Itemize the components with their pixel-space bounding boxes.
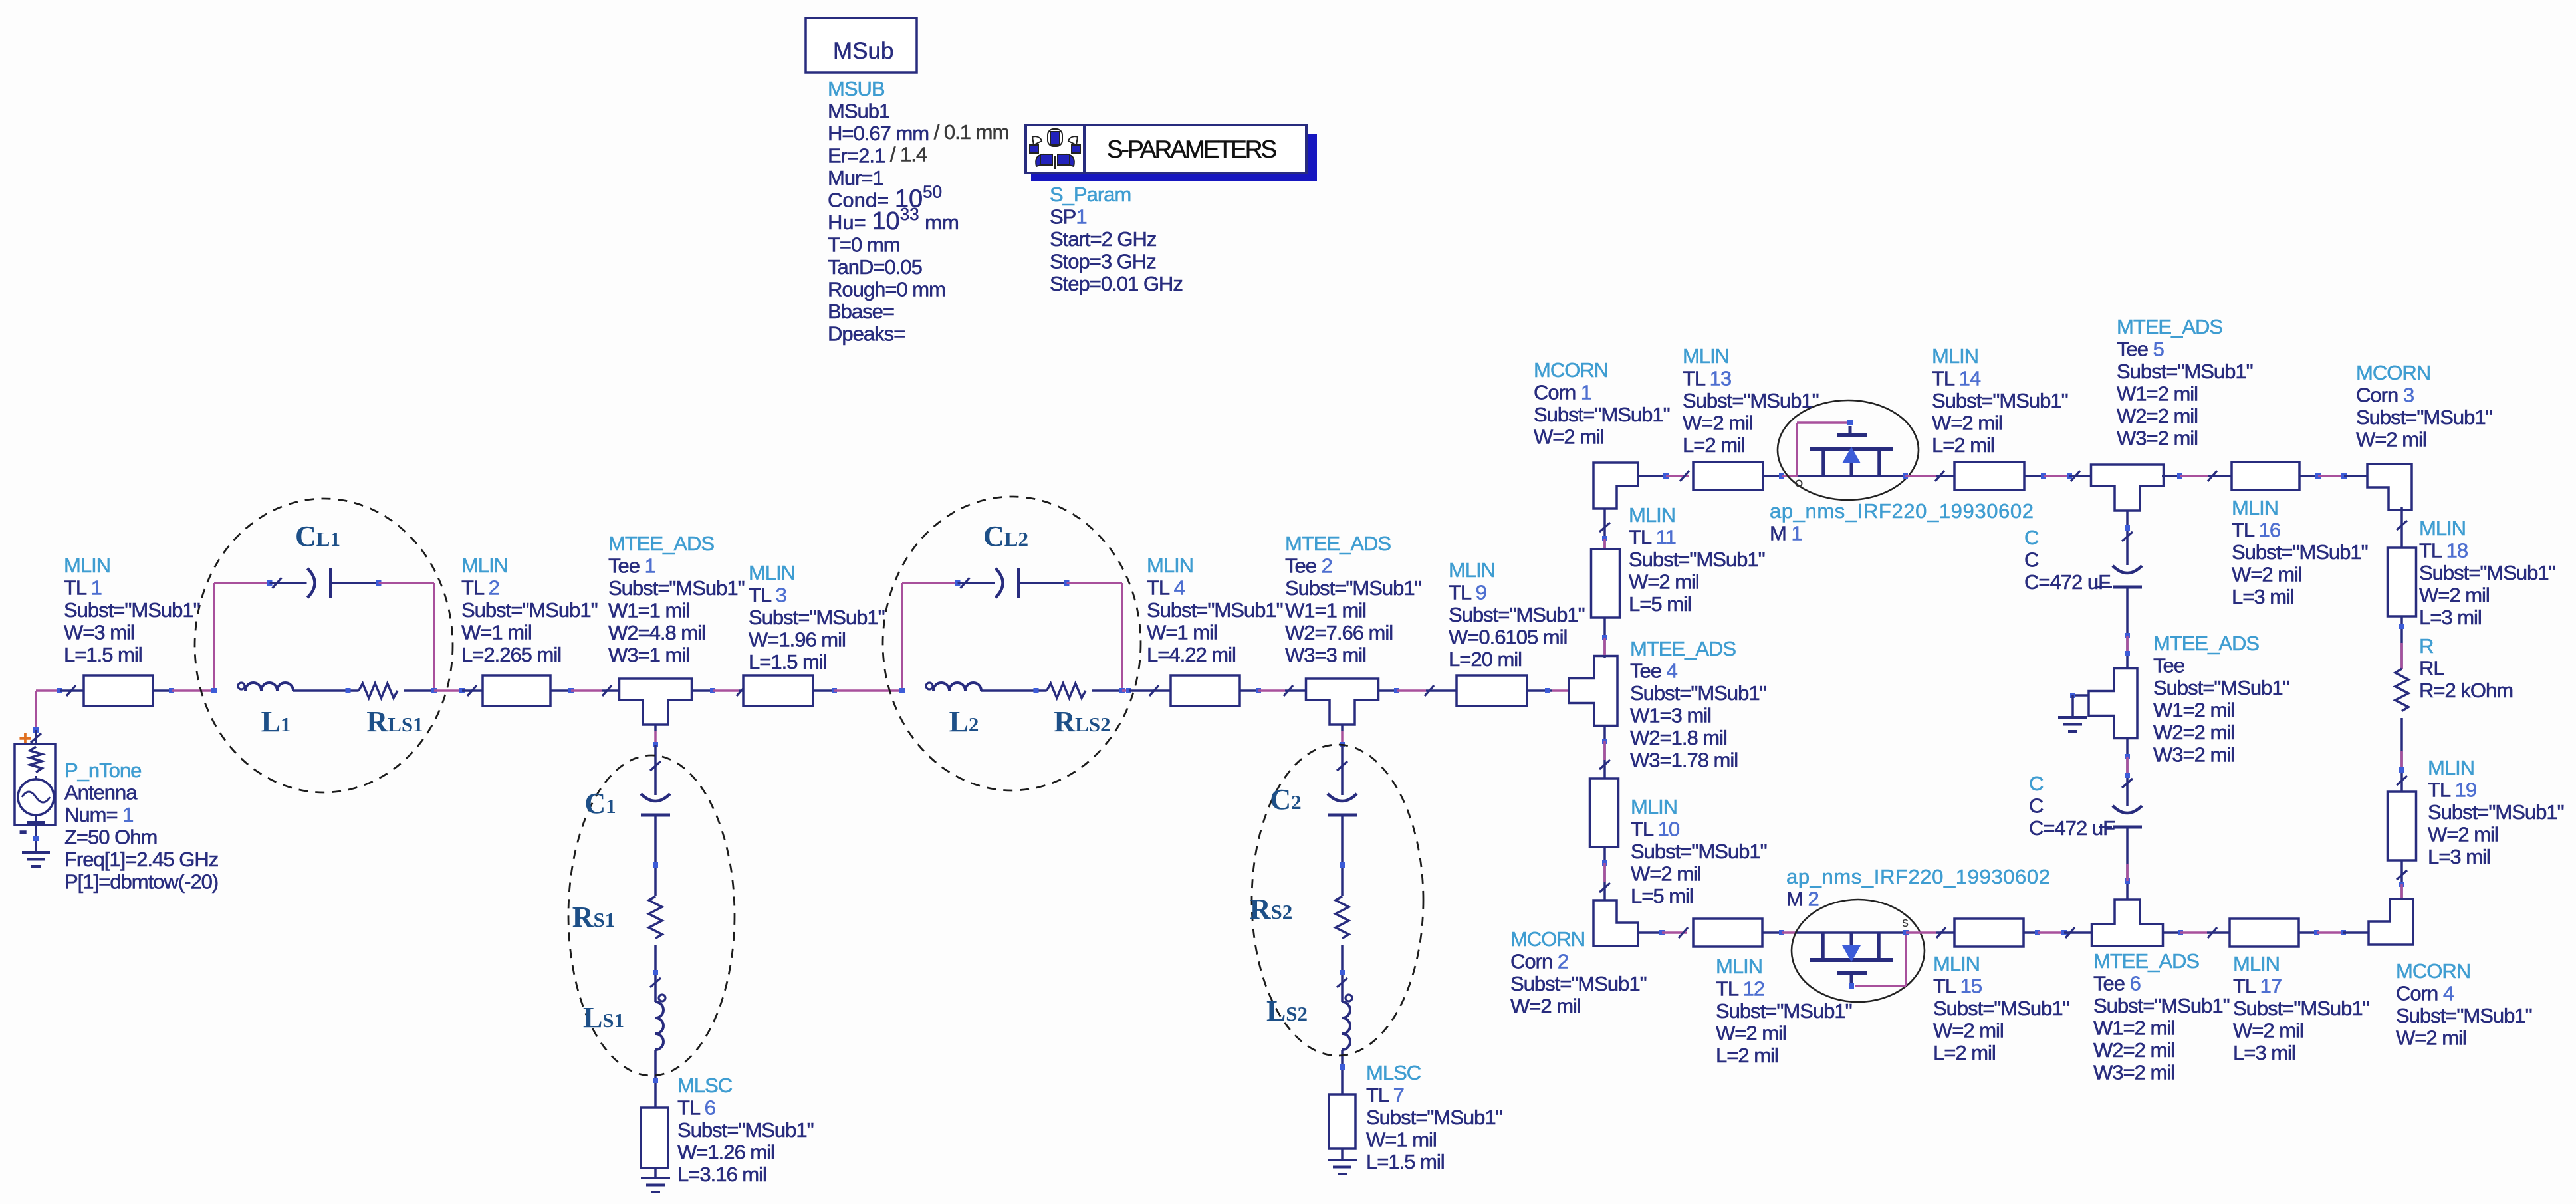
svg-text:W=2 mil: W=2 mil xyxy=(1631,862,1701,886)
svg-text:Subst="MSub1": Subst="MSub1" xyxy=(1631,840,1767,863)
svg-text:W3=3 mil: W3=3 mil xyxy=(1285,644,1366,667)
svg-text:Freq[1]=2.45 GHz: Freq[1]=2.45 GHz xyxy=(64,848,218,871)
svg-text:Subst="MSub1": Subst="MSub1" xyxy=(1716,999,1852,1023)
svg-text:TL 9: TL 9 xyxy=(1449,581,1486,604)
svg-text:MTEE_ADS: MTEE_ADS xyxy=(1630,637,1736,660)
svg-text:Subst="MSub1": Subst="MSub1" xyxy=(2396,1004,2532,1027)
svg-text:M 1: M 1 xyxy=(1770,522,1802,545)
svg-text:TL 13: TL 13 xyxy=(1683,367,1731,390)
svg-text:W1=3 mil: W1=3 mil xyxy=(1630,704,1711,727)
svg-text:W=2 mil: W=2 mil xyxy=(2428,823,2498,846)
svg-text:Subst="MSub1": Subst="MSub1" xyxy=(1932,389,2068,412)
svg-text:Subst="MSub1": Subst="MSub1" xyxy=(1629,548,1765,571)
svg-text:MLIN: MLIN xyxy=(2233,952,2280,975)
svg-text:W=2 mil: W=2 mil xyxy=(2419,584,2490,607)
svg-text:P_nTone: P_nTone xyxy=(64,759,141,782)
svg-text:MTEE_ADS: MTEE_ADS xyxy=(1285,532,1391,555)
svg-text:Tee 2: Tee 2 xyxy=(1285,554,1332,578)
svg-text:MLIN: MLIN xyxy=(64,554,110,577)
svg-text:Dpeaks=: Dpeaks= xyxy=(828,322,905,346)
svg-text:Stop=3 GHz: Stop=3 GHz xyxy=(1050,250,1156,273)
svg-text:MLIN: MLIN xyxy=(2419,517,2466,540)
svg-text:W2=4.8 mil: W2=4.8 mil xyxy=(608,621,705,644)
svg-text:MCORN: MCORN xyxy=(2396,959,2470,983)
svg-text:MSub: MSub xyxy=(833,38,893,64)
svg-text:Subst="MSub1": Subst="MSub1" xyxy=(1534,403,1670,426)
svg-text:TL 12: TL 12 xyxy=(1716,977,1764,1001)
svg-text:Subst="MSub1": Subst="MSub1" xyxy=(2153,676,2289,699)
svg-text:Z=50 Ohm: Z=50 Ohm xyxy=(64,826,157,849)
svg-text:W=2 mil: W=2 mil xyxy=(2356,428,2426,451)
svg-text:TL 4: TL 4 xyxy=(1147,576,1185,600)
svg-text:W=2 mil: W=2 mil xyxy=(1933,1019,2004,1042)
svg-text:L=3.16 mil: L=3.16 mil xyxy=(677,1163,766,1186)
svg-text:Er=2.1 / 1.4: Er=2.1 / 1.4 xyxy=(828,143,927,168)
svg-text:Num= 1: Num= 1 xyxy=(64,803,133,826)
svg-text:R: R xyxy=(2419,634,2433,658)
svg-text:L=3 mil: L=3 mil xyxy=(2419,606,2482,629)
svg-text:W=0.6105 mil: W=0.6105 mil xyxy=(1449,626,1567,649)
svg-text:Subst="MSub1": Subst="MSub1" xyxy=(2356,406,2492,429)
svg-text:ap_nms_IRF220_19930602: ap_nms_IRF220_19930602 xyxy=(1786,865,2051,888)
svg-text:W1=1 mil: W1=1 mil xyxy=(1285,599,1366,622)
svg-text:W=1 mil: W=1 mil xyxy=(1366,1128,1437,1151)
svg-text:W=3 mil: W=3 mil xyxy=(64,621,134,644)
svg-text:TL 3: TL 3 xyxy=(749,584,786,607)
svg-text:Tee: Tee xyxy=(2153,654,2184,677)
svg-text:MLIN: MLIN xyxy=(1629,503,1675,527)
svg-text:W2=7.66 mil: W2=7.66 mil xyxy=(1285,621,1393,644)
svg-text:Start=2 GHz: Start=2 GHz xyxy=(1050,227,1156,251)
svg-text:S-PARAMETERS: S-PARAMETERS xyxy=(1107,136,1276,163)
svg-text:MSUB: MSUB xyxy=(828,77,885,100)
svg-text:TL 17: TL 17 xyxy=(2233,975,2282,998)
svg-text:TL 1: TL 1 xyxy=(64,576,102,600)
svg-text:W1=2 mil: W1=2 mil xyxy=(2153,699,2234,722)
svg-text:TL 18: TL 18 xyxy=(2419,539,2468,562)
svg-text:TL 7: TL 7 xyxy=(1366,1084,1404,1107)
svg-text:MLIN: MLIN xyxy=(2232,496,2278,519)
svg-text:Mur=1: Mur=1 xyxy=(828,166,883,189)
svg-text:Corn 1: Corn 1 xyxy=(1534,381,1591,404)
svg-text:W=2 mil: W=2 mil xyxy=(2233,1019,2303,1042)
svg-text:W2=2 mil: W2=2 mil xyxy=(2093,1038,2174,1062)
svg-text:W=2 mil: W=2 mil xyxy=(1683,412,1753,435)
svg-text:ap_nms_IRF220_19930602: ap_nms_IRF220_19930602 xyxy=(1770,499,2034,523)
svg-text:TL 16: TL 16 xyxy=(2232,519,2280,542)
svg-text:R=2 kOhm: R=2 kOhm xyxy=(2419,679,2513,702)
svg-text:Subst="MSub1": Subst="MSub1" xyxy=(1630,681,1766,705)
svg-text:TL 15: TL 15 xyxy=(1933,975,1982,998)
svg-text:L=3 mil: L=3 mil xyxy=(2232,585,2294,608)
svg-text:Subst="MSub1": Subst="MSub1" xyxy=(2428,800,2564,824)
svg-text:Subst="MSub1": Subst="MSub1" xyxy=(749,606,885,629)
svg-text:L=2.265 mil: L=2.265 mil xyxy=(461,643,561,666)
svg-text:W3=1.78 mil: W3=1.78 mil xyxy=(1630,749,1738,772)
svg-text:MCORN: MCORN xyxy=(1534,358,1608,382)
svg-text:MCORN: MCORN xyxy=(1510,927,1585,951)
svg-text:W1=1 mil: W1=1 mil xyxy=(608,599,689,622)
svg-text:M 2: M 2 xyxy=(1786,888,1819,911)
svg-text:MLIN: MLIN xyxy=(1631,795,1677,818)
svg-text:Corn 4: Corn 4 xyxy=(2396,982,2454,1005)
svg-text:W3=2 mil: W3=2 mil xyxy=(2117,427,2198,450)
svg-text:W3=2 mil: W3=2 mil xyxy=(2153,743,2234,767)
svg-text:-: - xyxy=(19,816,27,845)
svg-text:MLSC: MLSC xyxy=(1366,1061,1421,1084)
svg-text:MLIN: MLIN xyxy=(1933,952,1980,975)
svg-text:W=2 mil: W=2 mil xyxy=(1534,425,1604,449)
svg-text:L=3 mil: L=3 mil xyxy=(2428,845,2490,868)
svg-text:MTEE_ADS: MTEE_ADS xyxy=(608,532,714,555)
svg-text:Subst="MSub1": Subst="MSub1" xyxy=(2233,997,2369,1020)
svg-text:W=1 mil: W=1 mil xyxy=(1147,621,1217,644)
svg-text:L=1.5 mil: L=1.5 mil xyxy=(1366,1150,1445,1173)
svg-text:MCORN: MCORN xyxy=(2356,361,2430,384)
svg-text:Subst="MSub1": Subst="MSub1" xyxy=(64,598,200,622)
svg-text:C: C xyxy=(2024,548,2039,572)
svg-text:Step=0.01 GHz: Step=0.01 GHz xyxy=(1050,272,1183,295)
svg-text:MTEE_ADS: MTEE_ADS xyxy=(2153,632,2259,655)
svg-text:MLSC: MLSC xyxy=(677,1074,733,1097)
svg-text:W3=2 mil: W3=2 mil xyxy=(2093,1061,2174,1084)
svg-text:L=2 mil: L=2 mil xyxy=(1933,1041,1996,1064)
svg-text:W2=2 mil: W2=2 mil xyxy=(2153,721,2234,744)
svg-text:Subst="MSub1": Subst="MSub1" xyxy=(2419,561,2555,584)
svg-text:L=2 mil: L=2 mil xyxy=(1932,433,1994,457)
svg-text:L=2 mil: L=2 mil xyxy=(1683,433,1745,457)
svg-text:TL 10: TL 10 xyxy=(1631,818,1680,841)
svg-text:MTEE_ADS: MTEE_ADS xyxy=(2093,949,2199,973)
svg-text:L=2 mil: L=2 mil xyxy=(1716,1044,1778,1067)
svg-text:MLIN: MLIN xyxy=(461,554,508,577)
svg-text:W=1 mil: W=1 mil xyxy=(461,621,532,644)
svg-text:Subst="MSub1": Subst="MSub1" xyxy=(677,1118,814,1142)
svg-text:MTEE_ADS: MTEE_ADS xyxy=(2117,315,2222,338)
svg-text:Antenna: Antenna xyxy=(64,781,138,804)
svg-text:T=0 mm: T=0 mm xyxy=(828,233,900,257)
svg-text:C: C xyxy=(2024,526,2039,549)
svg-text:W=2 mil: W=2 mil xyxy=(1629,570,1699,594)
svg-text:s: s xyxy=(1902,915,1909,930)
svg-text:Subst="MSub1": Subst="MSub1" xyxy=(461,598,598,622)
svg-text:L=20 mil: L=20 mil xyxy=(1449,648,1522,671)
svg-text:Subst="MSub1": Subst="MSub1" xyxy=(1683,389,1819,412)
svg-text:Corn 3: Corn 3 xyxy=(2356,384,2414,407)
svg-text:Subst="MSub1": Subst="MSub1" xyxy=(1449,603,1585,626)
svg-text:Bbase=: Bbase= xyxy=(828,300,894,323)
svg-text:MLIN: MLIN xyxy=(1147,554,1193,577)
svg-text:Tee 5: Tee 5 xyxy=(2117,338,2164,361)
svg-text:C: C xyxy=(2029,794,2044,818)
svg-text:W=2 mil: W=2 mil xyxy=(1510,995,1581,1018)
svg-text:MLIN: MLIN xyxy=(749,561,795,584)
svg-text:W=1.96 mil: W=1.96 mil xyxy=(749,628,846,652)
svg-text:MLIN: MLIN xyxy=(1932,344,1978,368)
svg-text:Subst="MSub1": Subst="MSub1" xyxy=(1285,576,1421,600)
svg-text:Subst="MSub1": Subst="MSub1" xyxy=(1147,598,1283,622)
svg-text:W1=2 mil: W1=2 mil xyxy=(2093,1017,2174,1040)
svg-text:Subst="MSub1": Subst="MSub1" xyxy=(1366,1106,1502,1129)
svg-text:S_Param: S_Param xyxy=(1050,183,1131,206)
svg-text:TL 6: TL 6 xyxy=(677,1096,715,1120)
svg-text:Tee 6: Tee 6 xyxy=(2093,972,2141,995)
svg-text:Subst="MSub1": Subst="MSub1" xyxy=(2232,541,2368,564)
svg-text:MLIN: MLIN xyxy=(1449,558,1495,582)
svg-text:MLIN: MLIN xyxy=(1716,955,1762,978)
svg-text:SP1: SP1 xyxy=(1050,205,1087,229)
svg-text:L=1.5 mil: L=1.5 mil xyxy=(749,650,827,673)
svg-text:W2=1.8 mil: W2=1.8 mil xyxy=(1630,726,1727,749)
svg-text:W3=1 mil: W3=1 mil xyxy=(608,644,689,667)
svg-text:Rough=0 mm: Rough=0 mm xyxy=(828,278,945,301)
svg-text:MSub1: MSub1 xyxy=(828,100,889,123)
svg-text:W=2 mil: W=2 mil xyxy=(1716,1022,1786,1045)
svg-text:L=5 mil: L=5 mil xyxy=(1631,884,1693,907)
svg-text:H=0.67 mm / 0.1 mm: H=0.67 mm / 0.1 mm xyxy=(828,120,1008,145)
svg-text:Subst="MSub1": Subst="MSub1" xyxy=(608,576,745,600)
svg-text:C: C xyxy=(2029,772,2044,795)
svg-text:W2=2 mil: W2=2 mil xyxy=(2117,404,2198,427)
svg-text:W=2 mil: W=2 mil xyxy=(1932,412,2002,435)
svg-text:W=2 mil: W=2 mil xyxy=(2396,1026,2466,1050)
svg-text:L=4.22 mil: L=4.22 mil xyxy=(1147,643,1236,666)
svg-text:P[1]=dbmtow(-20): P[1]=dbmtow(-20) xyxy=(64,870,218,894)
svg-text:TL 19: TL 19 xyxy=(2428,779,2476,802)
svg-text:MLIN: MLIN xyxy=(2428,756,2474,779)
svg-text:Subst="MSub1": Subst="MSub1" xyxy=(1510,972,1647,995)
svg-text:Tee 1: Tee 1 xyxy=(608,554,655,578)
svg-text:C=472 uF: C=472 uF xyxy=(2024,570,2110,594)
svg-text:MLIN: MLIN xyxy=(1683,344,1729,368)
svg-text:Subst="MSub1": Subst="MSub1" xyxy=(1933,997,2069,1020)
svg-text:Corn 2: Corn 2 xyxy=(1510,950,1568,973)
svg-text:TanD=0.05: TanD=0.05 xyxy=(828,255,922,279)
svg-text:TL 11: TL 11 xyxy=(1629,526,1676,549)
svg-text:L=3 mil: L=3 mil xyxy=(2233,1041,2295,1064)
svg-text:L=5 mil: L=5 mil xyxy=(1629,592,1691,616)
svg-text:TL 14: TL 14 xyxy=(1932,367,1981,390)
svg-text:Subst="MSub1": Subst="MSub1" xyxy=(2117,360,2253,383)
svg-text:L=1.5 mil: L=1.5 mil xyxy=(64,643,142,666)
svg-text:Subst="MSub1": Subst="MSub1" xyxy=(2093,994,2230,1017)
svg-text:RL: RL xyxy=(2419,657,2444,680)
svg-text:TL 2: TL 2 xyxy=(461,576,499,600)
svg-text:W=2 mil: W=2 mil xyxy=(2232,563,2302,586)
svg-text:Tee 4: Tee 4 xyxy=(1630,660,1678,683)
svg-text:W1=2 mil: W1=2 mil xyxy=(2117,382,2198,406)
svg-text:W=1.26 mil: W=1.26 mil xyxy=(677,1141,774,1164)
